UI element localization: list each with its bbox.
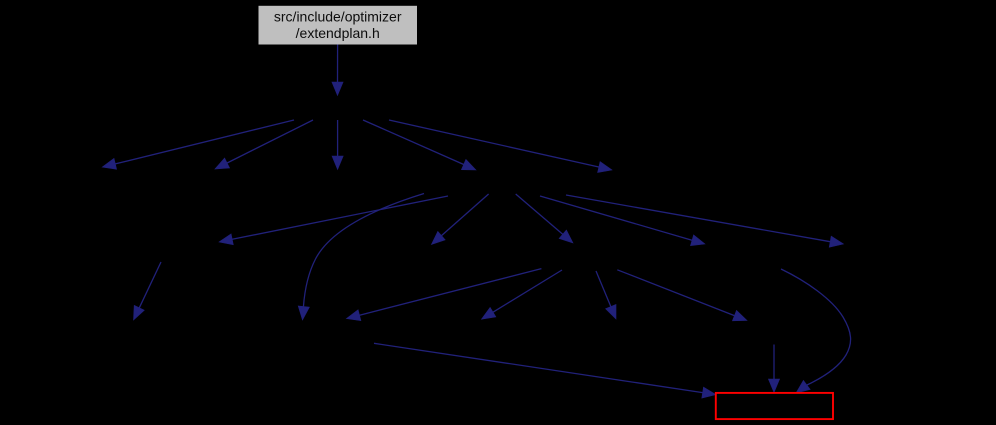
svg-text:src/include/optimizer: src/include/optimizer — [274, 9, 402, 25]
edge B->D — [431, 194, 488, 245]
edge G->red — [374, 343, 716, 398]
edge H->L4c — [482, 270, 563, 319]
edge B->C — [219, 196, 448, 245]
edge L4e->red — [768, 345, 779, 393]
edge A->N2 — [215, 120, 313, 169]
edge A->N5 — [389, 120, 612, 173]
edge E->red (curved) — [781, 269, 851, 393]
edge H->L4d — [596, 271, 616, 319]
edge top->A — [332, 45, 343, 96]
node TOP: src/include/optimizer/extendplan.h (gray box) — [259, 6, 418, 45]
edge A->N3 — [332, 120, 343, 170]
edge B->H — [516, 194, 573, 243]
edge B->G (curved) — [298, 194, 424, 321]
edge H->G — [346, 269, 541, 321]
edge C->L4a — [134, 262, 162, 320]
edge B->E — [540, 196, 705, 246]
svg-text:/extendplan.h: /extendplan.h — [296, 25, 380, 41]
edge A->N1 — [102, 120, 294, 169]
node RED (truncated node, red border) — [716, 393, 833, 419]
edge H->L4e — [617, 270, 747, 321]
edge A->B — [363, 120, 476, 170]
edge B->F — [566, 195, 844, 247]
